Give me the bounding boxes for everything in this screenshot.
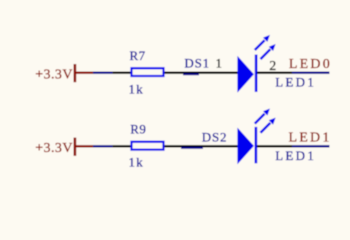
svg-text:LED1: LED1 xyxy=(275,148,316,163)
resistor R7 left lead xyxy=(113,71,131,73)
svg-text:DS2: DS2 xyxy=(202,130,228,145)
svg-text:1k: 1k xyxy=(129,82,144,97)
svg-text:+3.3V: +3.3V xyxy=(35,67,73,82)
wire overlap (navy) under DS1 xyxy=(183,73,199,75)
LED DS1 cathode bar xyxy=(255,55,258,92)
power port +3.3V (circuit 2) xyxy=(35,138,93,156)
wire DS2 to net LED1 xyxy=(292,145,330,147)
LED DS2 light arrow upper xyxy=(255,109,270,124)
resistor R7 body xyxy=(132,68,164,76)
wire DS1 to net LED0 xyxy=(292,71,330,73)
wire R9 to LED DS2 xyxy=(165,145,238,147)
LED DS1 light arrow lower xyxy=(261,44,276,59)
wire overlap (navy) under DS2 xyxy=(181,147,203,149)
svg-text:R9: R9 xyxy=(130,122,146,137)
svg-text:1k: 1k xyxy=(129,155,144,170)
resistor R9 body xyxy=(132,142,164,150)
wire +3.3V to R7 xyxy=(93,71,113,73)
svg-text:LED1: LED1 xyxy=(275,75,316,90)
LED DS1 body (anode triangle) xyxy=(237,56,254,93)
svg-text:1: 1 xyxy=(216,56,223,71)
LED DS1 light arrow upper xyxy=(255,35,270,50)
svg-text:+3.3V: +3.3V xyxy=(35,141,73,156)
wire R7 to LED DS1 xyxy=(165,71,238,73)
svg-text:DS1: DS1 xyxy=(184,56,210,71)
LED DS2 body (anode triangle) xyxy=(237,128,254,165)
LED DS1 right lead xyxy=(257,71,292,73)
svg-text:LED1: LED1 xyxy=(289,130,332,145)
power port +3.3V (circuit 1) xyxy=(35,64,93,82)
svg-text:LED0: LED0 xyxy=(289,57,332,72)
LED DS2 light arrow lower xyxy=(261,118,276,133)
LED DS2 right lead xyxy=(257,145,292,147)
LED DS2 cathode bar xyxy=(255,127,258,163)
wire +3.3V to R9 xyxy=(93,145,113,147)
svg-text:R7: R7 xyxy=(130,48,146,63)
resistor R9 left lead xyxy=(113,145,131,147)
